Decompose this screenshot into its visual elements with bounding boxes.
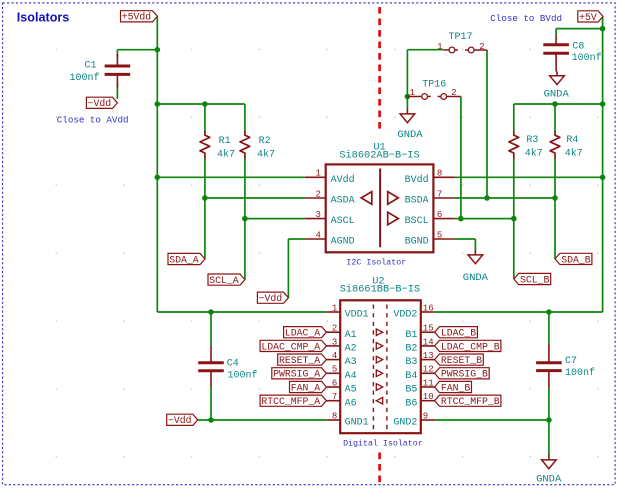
svg-text:4k7: 4k7 [217,149,235,161]
svg-text:SDA_B: SDA_B [561,254,591,265]
svg-text:3: 3 [332,337,337,347]
svg-text:100nf: 100nf [572,52,602,64]
svg-text:FAN_A: FAN_A [291,382,321,393]
svg-text:VDD1: VDD1 [345,310,369,321]
svg-text:2: 2 [332,324,337,334]
svg-text:Isolators: Isolators [17,10,70,24]
svg-text:A6: A6 [345,398,357,409]
svg-text:B2: B2 [405,344,417,355]
svg-text:C7: C7 [565,356,577,367]
svg-text:BSDA: BSDA [405,196,429,207]
svg-text:RTCC_MFP_A: RTCC_MFP_A [261,396,320,407]
svg-text:C4: C4 [227,359,239,370]
svg-text:B6: B6 [405,398,417,409]
svg-text:SCL_A: SCL_A [209,275,239,286]
svg-text:9: 9 [423,411,428,421]
svg-text:LDAC_CMP_A: LDAC_CMP_A [261,341,320,352]
svg-text:Close to BVdd: Close to BVdd [490,13,562,24]
svg-text:ASCL: ASCL [331,216,355,227]
svg-text:VDD2: VDD2 [393,310,417,321]
svg-text:2: 2 [479,42,484,52]
svg-text:16: 16 [423,303,434,313]
svg-text:A5: A5 [345,385,357,396]
svg-text:Digital Isolator: Digital Isolator [343,439,423,449]
svg-text:GNDA: GNDA [397,129,423,141]
svg-text:10: 10 [423,392,434,402]
svg-text:C8: C8 [572,41,584,52]
svg-text:R4: R4 [566,135,578,146]
svg-text:C1: C1 [84,60,96,71]
svg-text:6: 6 [437,210,442,220]
svg-text:SDA_A: SDA_A [169,254,199,265]
svg-text:5: 5 [437,230,442,240]
svg-text:5: 5 [332,365,337,375]
svg-text:TP16: TP16 [422,80,446,91]
svg-text:I2C Isolator: I2C Isolator [346,257,406,267]
svg-text:3: 3 [315,210,320,220]
svg-text:4k7: 4k7 [525,147,543,159]
svg-text:+5V: +5V [579,12,597,23]
svg-text:LDAC_B: LDAC_B [441,328,476,339]
svg-text:GND1: GND1 [345,418,369,429]
svg-text:R2: R2 [259,136,271,147]
svg-text:PWRSIG_A: PWRSIG_A [273,369,320,380]
svg-text:AVdd: AVdd [331,174,355,186]
svg-text:RTCC_MFP_B: RTCC_MFP_B [441,396,500,407]
svg-text:A4: A4 [345,371,357,382]
svg-text:13: 13 [423,351,434,361]
svg-text:1: 1 [332,303,337,313]
svg-text:12: 12 [423,365,434,375]
svg-text:A2: A2 [345,344,357,355]
svg-text:−Vdd: −Vdd [168,415,192,426]
svg-text:LDAC_CMP_B: LDAC_CMP_B [441,341,500,352]
svg-text:4k7: 4k7 [257,149,275,161]
svg-text:11: 11 [423,378,434,388]
svg-text:B5: B5 [405,385,417,396]
svg-text:+5Vdd: +5Vdd [122,12,152,23]
svg-text:100nf: 100nf [69,72,99,84]
svg-text:8: 8 [437,169,442,179]
svg-text:1: 1 [410,88,415,98]
svg-text:RESET_A: RESET_A [279,355,320,366]
svg-text:GNDA: GNDA [463,272,489,284]
svg-text:−Vdd: −Vdd [88,98,112,109]
svg-text:AGND: AGND [331,237,355,248]
svg-text:LDAC_A: LDAC_A [285,328,320,339]
svg-text:SCL_B: SCL_B [520,274,550,285]
svg-text:4: 4 [332,351,337,361]
svg-text:BSCL: BSCL [405,216,429,227]
svg-text:−Vdd: −Vdd [259,293,283,304]
svg-text:ASDA: ASDA [331,196,355,207]
svg-text:GNDA: GNDA [544,89,570,101]
svg-text:4k7: 4k7 [565,147,583,159]
svg-text:PWRSIG_B: PWRSIG_B [441,369,488,380]
svg-text:14: 14 [423,337,434,347]
svg-text:Si8661BB−B−IS: Si8661BB−B−IS [340,284,420,296]
svg-text:15: 15 [423,324,434,334]
svg-text:7: 7 [332,392,337,402]
svg-text:B1: B1 [405,330,417,341]
svg-text:TP17: TP17 [449,32,473,43]
svg-text:7: 7 [437,189,442,199]
svg-text:6: 6 [332,378,337,388]
svg-text:R1: R1 [219,136,231,147]
svg-text:BGND: BGND [405,237,429,248]
svg-text:100nf: 100nf [565,367,595,379]
svg-text:RESET_B: RESET_B [441,355,482,366]
svg-text:1: 1 [437,42,442,52]
svg-text:4: 4 [315,230,320,240]
svg-text:GNDA: GNDA [536,474,562,486]
svg-text:B4: B4 [405,371,417,382]
svg-text:BVdd: BVdd [405,174,429,186]
svg-text:GND2: GND2 [393,418,417,429]
svg-text:100nf: 100nf [228,369,258,381]
svg-text:1: 1 [315,169,320,179]
svg-text:FAN_B: FAN_B [441,382,471,393]
svg-text:2: 2 [451,88,456,98]
svg-text:A3: A3 [345,357,357,368]
svg-text:Si8602AB−B−IS: Si8602AB−B−IS [339,150,419,162]
svg-text:A1: A1 [345,330,357,341]
svg-text:R3: R3 [526,135,538,146]
svg-text:Close to AVdd: Close to AVdd [57,115,129,126]
svg-text:2: 2 [315,189,320,199]
svg-text:B3: B3 [405,357,417,368]
svg-text:8: 8 [332,411,337,421]
